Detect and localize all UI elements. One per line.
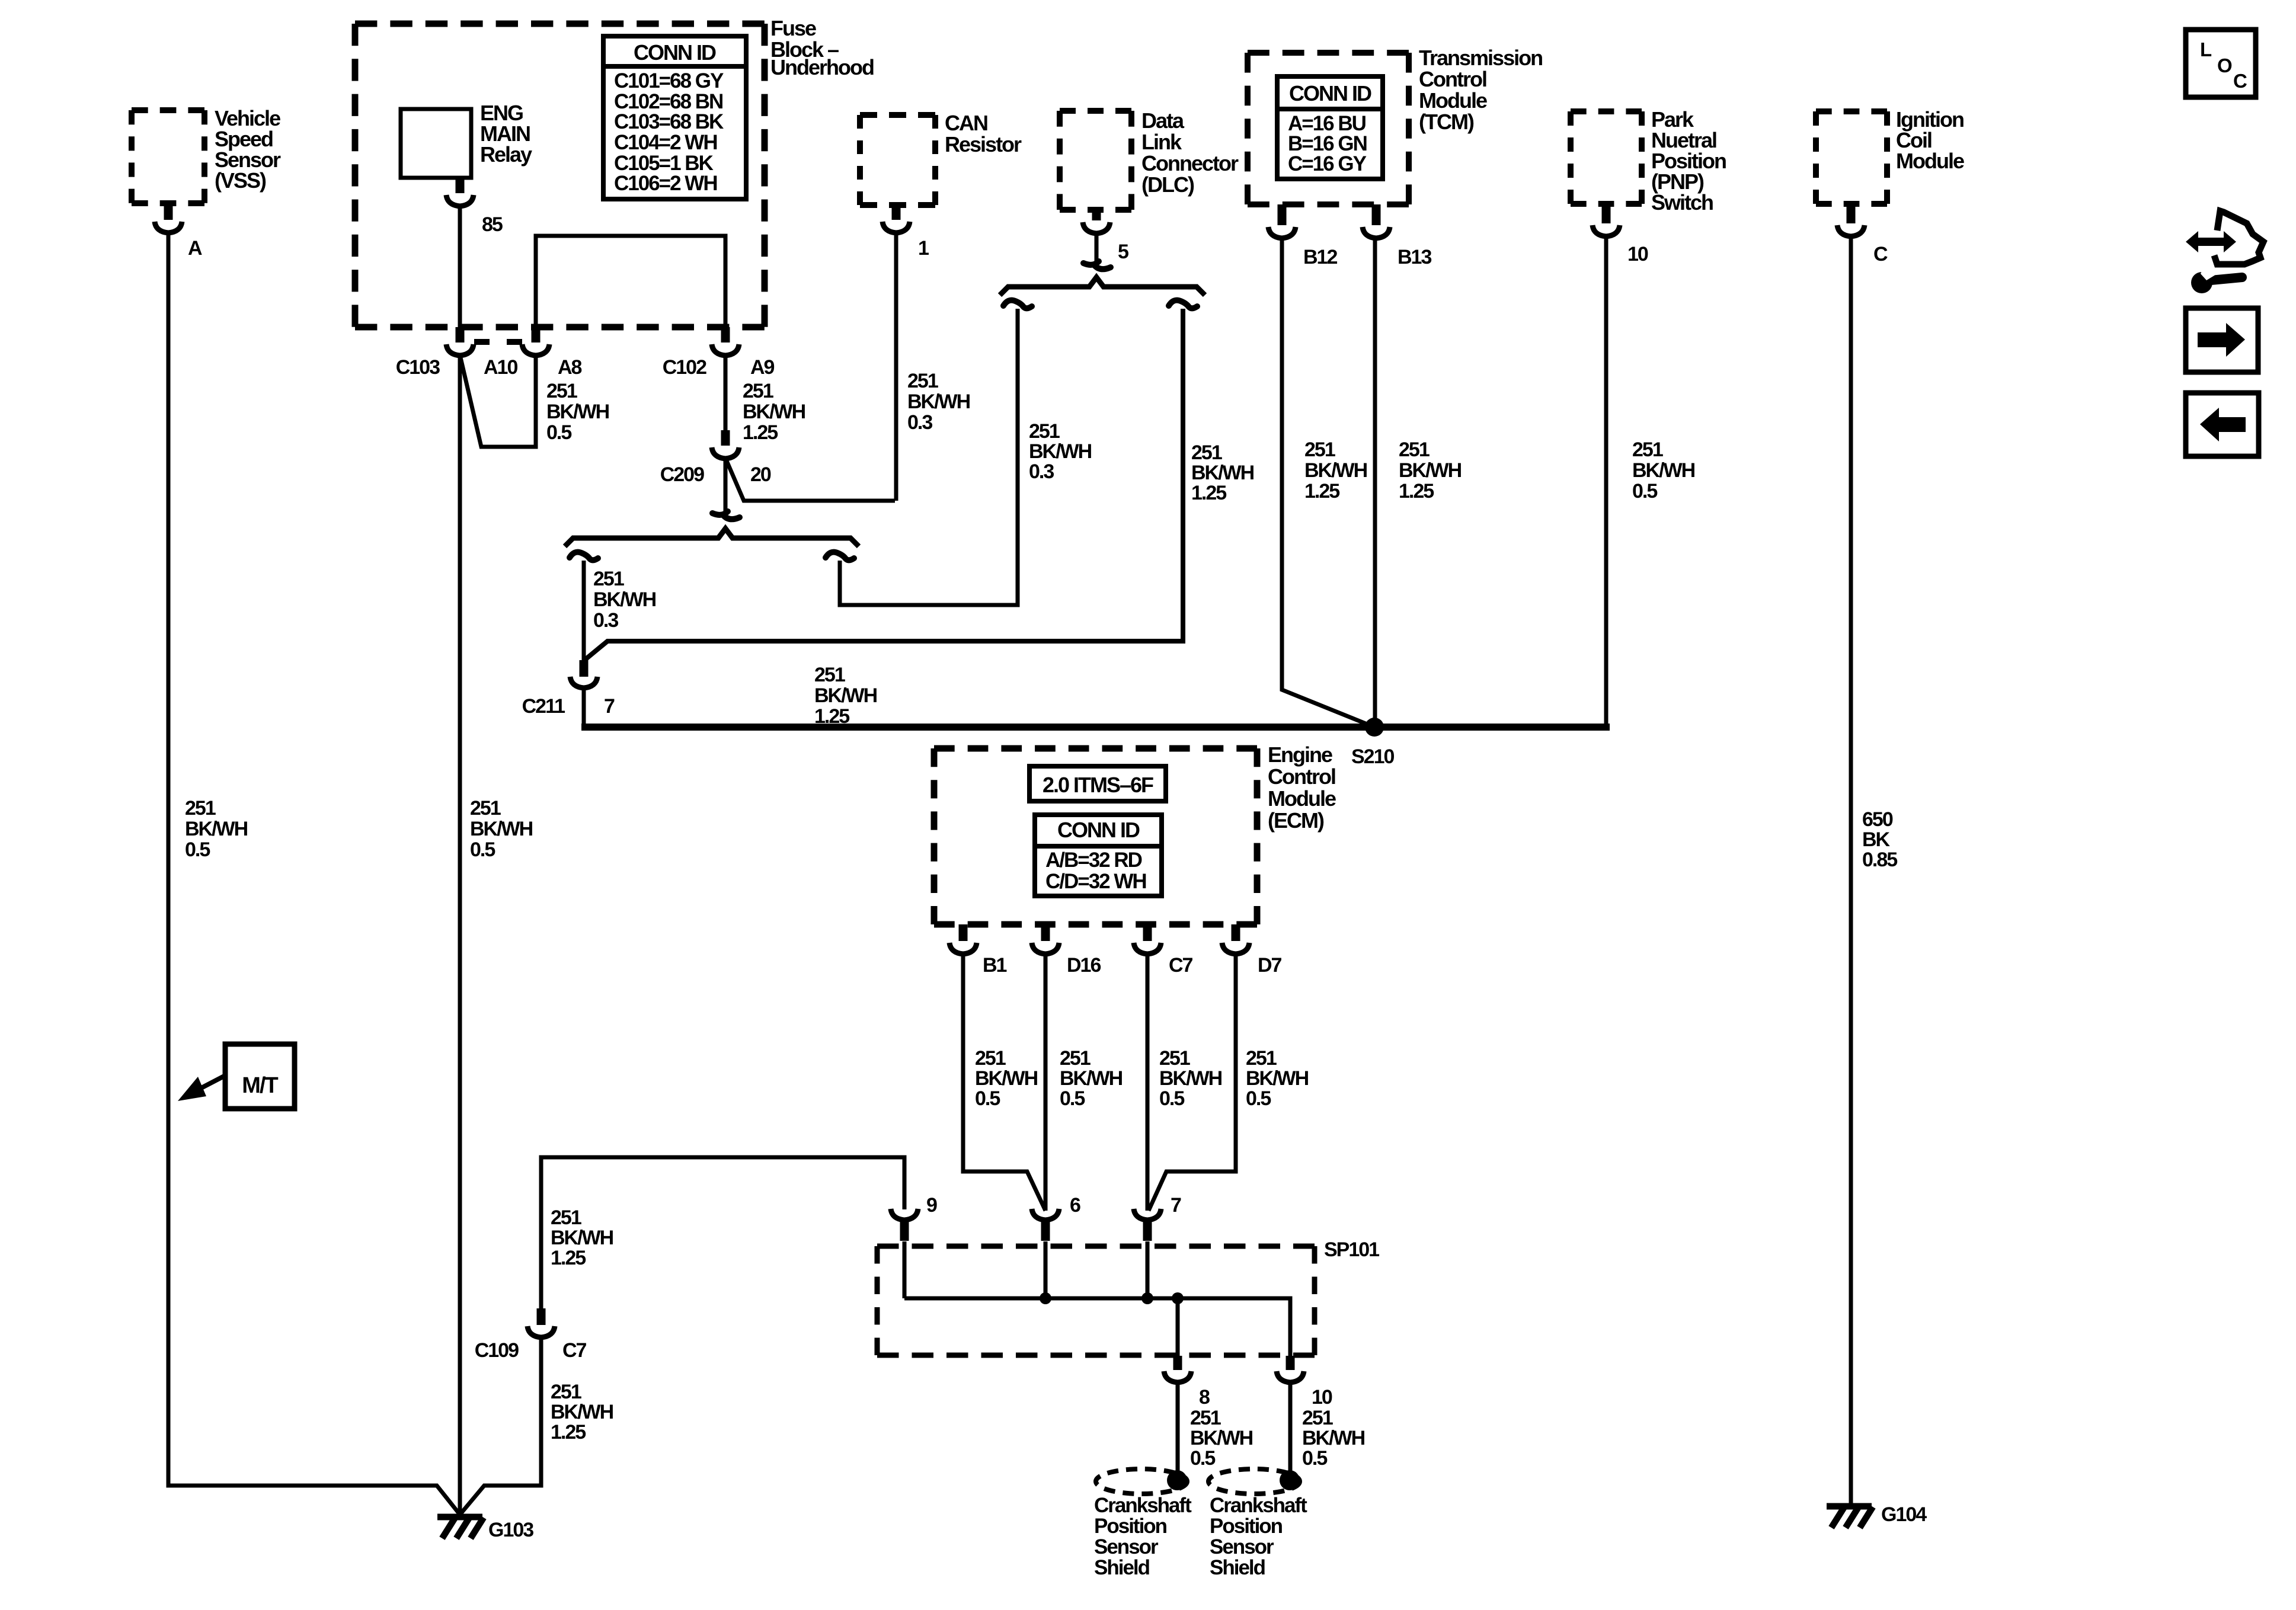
svg-text:5: 5 bbox=[1118, 241, 1128, 263]
wire: 10 to crank shield bbox=[1288, 1382, 1293, 1472]
shield conductor hook left (C209) bbox=[570, 552, 598, 561]
connector 7 (splice input) bbox=[1134, 1209, 1161, 1220]
svg-text:C/D=32 WH: C/D=32 WH bbox=[1045, 870, 1146, 893]
label B1 bbox=[983, 954, 1007, 977]
connector A of VSS bbox=[155, 222, 182, 233]
wire: C103 down to G103 bbox=[458, 355, 462, 1515]
svg-text:BK/WH: BK/WH bbox=[1304, 459, 1367, 482]
svg-text:D16: D16 bbox=[1067, 954, 1101, 977]
svg-text:Switch: Switch bbox=[1651, 190, 1713, 215]
shield conductor hook right (DLC) bbox=[1169, 300, 1197, 309]
svg-text:Sensor: Sensor bbox=[1094, 1535, 1159, 1558]
svg-text:0.5: 0.5 bbox=[185, 838, 210, 861]
svg-text:D7: D7 bbox=[1258, 954, 1282, 977]
svg-text:C103=68 BK: C103=68 BK bbox=[614, 110, 724, 133]
wire label 251 BK/WH 0.5 (C103 wire) bbox=[470, 797, 533, 861]
wire: DLC 5 down bbox=[1095, 233, 1099, 262]
svg-text:251: 251 bbox=[743, 380, 773, 402]
svg-text:Crankshaft: Crankshaft bbox=[1210, 1494, 1307, 1517]
connector D7 bbox=[1222, 943, 1249, 954]
svg-text:BK/WH: BK/WH bbox=[551, 1227, 613, 1249]
label ENG MAIN Relay bbox=[480, 101, 532, 167]
svg-text:0.5: 0.5 bbox=[470, 838, 495, 861]
connector C209 bbox=[712, 447, 739, 459]
pin stub below 6 bbox=[1041, 1221, 1050, 1241]
label 7 (C211) bbox=[604, 695, 615, 718]
svg-text:Module: Module bbox=[1419, 88, 1487, 113]
pin stub A8 bbox=[532, 327, 541, 343]
connector C7 (ECM) bbox=[1134, 943, 1161, 954]
svg-text:0.5: 0.5 bbox=[975, 1087, 1000, 1110]
2.0 ITMS-6F box bbox=[1029, 766, 1166, 801]
wire label 251 BK/WH 0.3 (DLC left conductor) bbox=[1029, 420, 1092, 483]
wire: B13 to S210 bbox=[1373, 238, 1377, 727]
pin stub D16 bbox=[1041, 924, 1050, 941]
label G104 bbox=[1881, 1503, 1927, 1526]
svg-text:1.25: 1.25 bbox=[1304, 480, 1339, 502]
svg-text:251: 251 bbox=[1029, 420, 1060, 443]
label Transmission Control Module (TCM) bbox=[1419, 46, 1542, 134]
svg-text:0.5: 0.5 bbox=[1190, 1447, 1215, 1470]
svg-text:BK/WH: BK/WH bbox=[1190, 1427, 1253, 1449]
connector C211 bbox=[570, 677, 597, 688]
wire: B1 to splice 6 bbox=[963, 954, 1045, 1211]
svg-text:9: 9 bbox=[926, 1194, 937, 1217]
connector C102 bbox=[712, 344, 739, 356]
svg-text:251: 251 bbox=[1246, 1047, 1277, 1070]
shield conductor hook left (DLC) bbox=[1003, 300, 1032, 309]
label B12 bbox=[1303, 246, 1337, 268]
connector 8 bbox=[1164, 1371, 1191, 1382]
svg-text:251: 251 bbox=[1060, 1047, 1091, 1070]
label G103 bbox=[488, 1519, 533, 1541]
pin stub B12 bbox=[1278, 204, 1287, 225]
svg-text:BK/WH: BK/WH bbox=[1029, 440, 1092, 463]
svg-text:251: 251 bbox=[1190, 1407, 1221, 1429]
crank shield ellipse right bbox=[1208, 1469, 1300, 1494]
svg-text:1.25: 1.25 bbox=[1399, 480, 1434, 502]
wire label 251 BK/WH 0.5 (A8 wire) bbox=[546, 380, 609, 444]
svg-text:C: C bbox=[1873, 243, 1888, 265]
svg-text:BK/WH: BK/WH bbox=[470, 818, 533, 840]
label Engine Control Module (ECM) bbox=[1268, 742, 1336, 833]
pin stub 10b bbox=[1286, 1356, 1295, 1370]
svg-text:Position: Position bbox=[1094, 1515, 1167, 1538]
pin stub below 9 bbox=[900, 1221, 909, 1241]
connector 6 bbox=[1032, 1209, 1059, 1220]
label Data Link Connector (DLC) bbox=[1141, 108, 1239, 197]
fuse block dashed box bbox=[355, 24, 765, 327]
svg-text:L: L bbox=[2200, 39, 2212, 60]
ENG MAIN relay box bbox=[401, 109, 471, 178]
svg-text:251: 251 bbox=[814, 664, 845, 686]
svg-text:C211: C211 bbox=[522, 695, 565, 718]
wire: left shield conductor to C211 bbox=[582, 561, 586, 662]
svg-text:CONN ID: CONN ID bbox=[1289, 81, 1371, 105]
svg-text:BK/WH: BK/WH bbox=[551, 1401, 613, 1423]
pin stub IGN-C bbox=[1847, 204, 1856, 223]
shield brace (DLC) bbox=[1000, 277, 1205, 295]
svg-text:8: 8 bbox=[1199, 1386, 1210, 1409]
svg-text:BK/WH: BK/WH bbox=[975, 1067, 1038, 1090]
svg-text:Shield: Shield bbox=[1094, 1556, 1150, 1579]
svg-text:0.5: 0.5 bbox=[1246, 1087, 1271, 1110]
connector 85 bbox=[446, 195, 474, 206]
svg-text:1.25: 1.25 bbox=[551, 1247, 586, 1269]
svg-text:251: 251 bbox=[1191, 441, 1222, 464]
label Park Nuetral Position (PNP) Switch bbox=[1651, 107, 1726, 215]
svg-text:Module: Module bbox=[1268, 786, 1336, 811]
svg-text:Link: Link bbox=[1141, 130, 1182, 154]
next page arrow box bbox=[2186, 308, 2258, 372]
wire: D7 to splice 7 bbox=[1149, 954, 1236, 1211]
wire label 650 BK 0.85 bbox=[1862, 808, 1897, 871]
wire label 251 BK/WH 1.25 (above C109) bbox=[551, 1206, 613, 1269]
wire label 251 BK/WH 0.3 (CAN wire) bbox=[907, 370, 970, 434]
label 5 bbox=[1118, 241, 1128, 263]
label 10 (PNP) bbox=[1627, 243, 1648, 265]
junction dot 6 bbox=[1040, 1292, 1051, 1304]
svg-text:BK/WH: BK/WH bbox=[546, 401, 609, 423]
M/T box bbox=[225, 1044, 295, 1109]
wire label 251 BK/WH 0.5 (D7) bbox=[1246, 1047, 1309, 1110]
svg-text:C7: C7 bbox=[1169, 954, 1193, 977]
svg-text:(TCM): (TCM) bbox=[1419, 110, 1474, 134]
label: Fuse Block - Underhood bbox=[770, 16, 874, 79]
wire label 251 BK/WH 0.5 (VSS wire) bbox=[185, 797, 248, 861]
shield brace (C209) bbox=[565, 529, 859, 546]
svg-text:2.0 ITMS–6F: 2.0 ITMS–6F bbox=[1043, 773, 1153, 797]
svg-text:0.3: 0.3 bbox=[907, 411, 932, 434]
svg-text:BK/WH: BK/WH bbox=[1191, 462, 1254, 484]
wire: right shield conductor to DLC left conductor bbox=[840, 309, 1018, 605]
wire: relay 85 down to C103 bbox=[458, 205, 462, 327]
svg-text:CONN ID: CONN ID bbox=[634, 40, 716, 65]
pin stub B1 bbox=[959, 924, 968, 941]
wire label 251 BK/WH 0.5 (crank 8) bbox=[1190, 1407, 1253, 1470]
crank shield ellipse left bbox=[1096, 1469, 1187, 1494]
component box: Park Nuetral Position (PNP) Switch bbox=[1571, 111, 1642, 204]
jumper wire A10 to A8 bbox=[460, 355, 536, 447]
svg-text:O: O bbox=[2217, 55, 2232, 76]
label A10 bbox=[484, 356, 517, 379]
label C102 bbox=[663, 356, 706, 379]
svg-text:0.5: 0.5 bbox=[1632, 480, 1657, 502]
label 20 bbox=[750, 463, 771, 486]
junction dot 8-branch bbox=[1172, 1292, 1184, 1304]
svg-text:BK/WH: BK/WH bbox=[1246, 1067, 1309, 1090]
connector A8 bbox=[522, 344, 549, 356]
svg-text:Engine: Engine bbox=[1268, 742, 1332, 767]
wire: A8 to A9 inside fuse block bbox=[536, 236, 725, 327]
ground G104 bbox=[1827, 1506, 1873, 1528]
svg-text:C=16 GY: C=16 GY bbox=[1288, 152, 1367, 175]
svg-text:BK/WH: BK/WH bbox=[593, 588, 656, 611]
connector 10 (crank) bbox=[1277, 1371, 1304, 1382]
pin stub DLC-5 bbox=[1092, 210, 1101, 220]
svg-text:85: 85 bbox=[482, 213, 503, 236]
svg-text:A: A bbox=[188, 237, 202, 260]
wire: C211 down to ground bus bbox=[582, 689, 586, 727]
svg-text:SP101: SP101 bbox=[1324, 1238, 1379, 1261]
svg-text:(VSS): (VSS) bbox=[215, 168, 266, 193]
svg-text:A/B=32 RD: A/B=32 RD bbox=[1045, 849, 1142, 872]
svg-text:Sensor: Sensor bbox=[1210, 1535, 1274, 1558]
wire label 251 BK/WH 1.25 (B13) bbox=[1399, 438, 1462, 502]
dashed link C103 to A8 bbox=[474, 339, 522, 345]
wire: C7 to splice 7 bbox=[1146, 954, 1150, 1211]
component box: Vehicle Speed Sensor (VSS) bbox=[132, 110, 204, 203]
CONN ID table (ECM) bbox=[1035, 815, 1162, 896]
svg-text:6: 6 bbox=[1070, 1194, 1080, 1217]
shield twist (C209) bbox=[712, 511, 740, 519]
connector C (ignition coil) bbox=[1837, 225, 1865, 236]
wire: CAN 1 down bbox=[894, 232, 898, 501]
svg-text:BK/WH: BK/WH bbox=[185, 818, 248, 840]
svg-text:251: 251 bbox=[551, 1206, 581, 1229]
CONN ID table (TCM) bbox=[1277, 76, 1383, 179]
label S210 bbox=[1351, 745, 1394, 768]
wire: 7 into SP101 bbox=[1146, 1241, 1150, 1298]
svg-text:(ECM): (ECM) bbox=[1268, 808, 1324, 833]
svg-text:CONN ID: CONN ID bbox=[1057, 818, 1140, 842]
wire: 6 into SP101 bbox=[1044, 1241, 1048, 1298]
label 9 bbox=[926, 1194, 937, 1217]
wire: bus up to PNP 10 bbox=[1604, 236, 1609, 727]
svg-text:0.5: 0.5 bbox=[1060, 1087, 1085, 1110]
connector D16 bbox=[1032, 943, 1059, 954]
wire: ignition coil C to G104 bbox=[1849, 236, 1853, 1505]
LOC legend box bbox=[2186, 30, 2256, 97]
wire label 251 BK/WH 1.25 (B12) bbox=[1304, 438, 1367, 502]
svg-text:7: 7 bbox=[1171, 1194, 1181, 1217]
label C103 bbox=[396, 356, 440, 379]
label A9 bbox=[750, 356, 775, 379]
svg-text:650: 650 bbox=[1862, 808, 1893, 831]
label 85 bbox=[482, 213, 503, 236]
pin stub 8 bbox=[1173, 1356, 1182, 1370]
component box: Ignition Coil Module bbox=[1816, 111, 1887, 204]
crank shield dot right bbox=[1280, 1470, 1300, 1490]
connector 5 bbox=[1083, 222, 1110, 233]
svg-text:Transmission: Transmission bbox=[1419, 46, 1542, 70]
connector 9 bbox=[891, 1209, 918, 1220]
svg-text:B1: B1 bbox=[983, 954, 1007, 977]
wire label 251 BK/WH 0.3 (left conductor) bbox=[593, 568, 656, 632]
connector 1 bbox=[882, 222, 910, 233]
service icon double arrow bbox=[2186, 231, 2236, 252]
pin stub D7 bbox=[1232, 924, 1240, 941]
svg-text:G104: G104 bbox=[1881, 1503, 1927, 1526]
svg-text:BK/WH: BK/WH bbox=[1159, 1067, 1222, 1090]
svg-text:Connector: Connector bbox=[1141, 151, 1239, 175]
svg-text:1.25: 1.25 bbox=[1191, 482, 1226, 504]
svg-text:G103: G103 bbox=[488, 1519, 533, 1541]
svg-text:251: 251 bbox=[470, 797, 501, 820]
svg-text:Relay: Relay bbox=[480, 142, 532, 167]
label Ignition Coil Module bbox=[1896, 107, 1964, 173]
wire: C102 to C209 bbox=[724, 355, 728, 431]
pin stub VSS-A bbox=[164, 203, 173, 220]
pin stub C109 bbox=[537, 1308, 546, 1325]
svg-text:C101=68 GY: C101=68 GY bbox=[614, 69, 724, 92]
svg-text:20: 20 bbox=[750, 463, 771, 486]
svg-text:0.85: 0.85 bbox=[1862, 849, 1897, 871]
svg-text:Data: Data bbox=[1141, 108, 1185, 133]
connector 10 (PNP) bbox=[1593, 225, 1620, 236]
connector C109 bbox=[527, 1326, 555, 1337]
svg-text:0.3: 0.3 bbox=[593, 609, 618, 632]
pin stub C211 bbox=[580, 660, 589, 677]
connector B13 bbox=[1363, 227, 1390, 238]
svg-text:C102: C102 bbox=[663, 356, 706, 379]
label: Vehicle Speed Sensor (VSS) bbox=[215, 106, 281, 193]
label A8 bbox=[558, 356, 582, 379]
svg-text:M/T: M/T bbox=[242, 1073, 278, 1098]
svg-text:S210: S210 bbox=[1351, 745, 1394, 768]
splice pack SP101 dashed box bbox=[877, 1246, 1315, 1355]
svg-text:251: 251 bbox=[185, 797, 216, 820]
label 7 (splice input) bbox=[1171, 1194, 1181, 1217]
pin stub CAN-1 bbox=[892, 205, 901, 220]
crank shield dot left bbox=[1167, 1470, 1187, 1490]
service icon wrench bbox=[2191, 267, 2242, 293]
svg-text:Control: Control bbox=[1268, 764, 1335, 789]
label C109 bbox=[475, 1339, 519, 1362]
svg-text:1.25: 1.25 bbox=[743, 421, 778, 444]
label C211 bbox=[522, 695, 565, 718]
svg-text:Fuse: Fuse bbox=[770, 16, 816, 40]
label D16 bbox=[1067, 954, 1101, 977]
svg-text:251: 251 bbox=[546, 380, 577, 402]
component box: Transmission Control Module (TCM) bbox=[1248, 53, 1409, 204]
wire: VSS pin A to G103 bbox=[168, 232, 460, 1515]
svg-text:A9: A9 bbox=[750, 356, 775, 379]
svg-text:Shield: Shield bbox=[1210, 1556, 1265, 1579]
label B13 bbox=[1398, 246, 1431, 268]
svg-text:BK/WH: BK/WH bbox=[743, 401, 805, 423]
svg-text:10: 10 bbox=[1627, 243, 1648, 265]
SP101 bus wire bbox=[904, 1298, 1290, 1357]
svg-text:Crankshaft: Crankshaft bbox=[1094, 1494, 1192, 1517]
connector B1 bbox=[949, 943, 977, 954]
service icon car outline bbox=[2214, 211, 2263, 264]
label D7 bbox=[1258, 954, 1282, 977]
wire: C109 to G103 bbox=[460, 1337, 541, 1515]
wire: C211 diagonal to DLC right conductor bbox=[584, 309, 1183, 661]
svg-text:BK/WH: BK/WH bbox=[1399, 459, 1462, 482]
label C (ignition coil) bbox=[1873, 243, 1888, 265]
svg-text:BK/WH: BK/WH bbox=[1632, 459, 1695, 482]
svg-text:C: C bbox=[2233, 70, 2247, 92]
svg-text:C106=2 WH: C106=2 WH bbox=[614, 172, 717, 195]
pin stub C102 bbox=[721, 327, 730, 343]
connector C103 bbox=[446, 344, 474, 356]
svg-text:1.25: 1.25 bbox=[551, 1421, 586, 1443]
label Crankshaft Position Sensor Shield (right) bbox=[1210, 1494, 1307, 1579]
svg-text:BK/WH: BK/WH bbox=[814, 684, 877, 707]
svg-text:A8: A8 bbox=[558, 356, 582, 379]
wire label 251 BK/WH 1.25 (below C109) bbox=[551, 1381, 613, 1443]
label CAN Resistor bbox=[945, 111, 1022, 156]
label 8 bbox=[1199, 1386, 1210, 1409]
label C7 (ECM) bbox=[1169, 954, 1193, 977]
svg-text:BK/WH: BK/WH bbox=[1060, 1067, 1123, 1090]
label C209 bbox=[660, 463, 704, 486]
svg-text:251: 251 bbox=[1399, 438, 1430, 461]
svg-text:0.5: 0.5 bbox=[546, 421, 571, 444]
wire label 251 BK/WH 0.5 (C7) bbox=[1159, 1047, 1222, 1110]
svg-text:251: 251 bbox=[1159, 1047, 1190, 1070]
svg-text:251: 251 bbox=[1302, 1407, 1333, 1429]
shield twist (DLC) bbox=[1083, 261, 1111, 269]
wire label 251 BK/WH 0.5 (crank 10) bbox=[1302, 1407, 1365, 1470]
wire: D16 to splice 6 bbox=[1044, 954, 1048, 1211]
connector B12 bbox=[1268, 227, 1296, 238]
svg-text:(DLC): (DLC) bbox=[1141, 172, 1194, 197]
wire: 9 into SP101 bbox=[903, 1241, 907, 1298]
svg-text:C104=2 WH: C104=2 WH bbox=[614, 131, 717, 154]
svg-text:C209: C209 bbox=[660, 463, 704, 486]
svg-text:251: 251 bbox=[1632, 438, 1663, 461]
svg-text:Resistor: Resistor bbox=[945, 132, 1022, 156]
pin stub PNP-10 bbox=[1602, 204, 1611, 223]
wire: B12 to S210 bbox=[1282, 238, 1374, 727]
svg-text:0.5: 0.5 bbox=[1302, 1447, 1327, 1470]
wire label 251 BK/WH 0.5 (PNP wire) bbox=[1632, 438, 1695, 502]
label SP101 bbox=[1324, 1238, 1379, 1261]
svg-text:251: 251 bbox=[593, 568, 624, 590]
pin stub above C209 bbox=[721, 430, 730, 446]
relay pin stub bbox=[456, 178, 465, 193]
previous page arrow box bbox=[2186, 393, 2259, 456]
splice S210 bbox=[1365, 718, 1384, 737]
pin stub C103 bbox=[456, 327, 465, 343]
component box: Engine Control Module (ECM) bbox=[934, 748, 1257, 924]
label 10 (crank) bbox=[1312, 1386, 1332, 1409]
pin stub B13 bbox=[1372, 204, 1381, 225]
component box: CAN Resistor bbox=[860, 115, 935, 205]
svg-text:C109: C109 bbox=[475, 1339, 519, 1362]
svg-text:0.3: 0.3 bbox=[1029, 460, 1054, 483]
svg-text:C7: C7 bbox=[562, 1339, 587, 1362]
wire label 251 BK/WH 1.25 (A9 wire) bbox=[743, 380, 805, 444]
svg-text:Module: Module bbox=[1896, 149, 1964, 173]
svg-text:1: 1 bbox=[918, 237, 929, 260]
wire label 251 BK/WH 1.25 (DLC right conductor) bbox=[1191, 441, 1254, 504]
svg-text:CAN: CAN bbox=[945, 111, 987, 135]
pin stub below 7 bbox=[1143, 1221, 1152, 1241]
svg-text:B13: B13 bbox=[1398, 246, 1431, 268]
wire label 251 BK/WH 0.5 (B1) bbox=[975, 1047, 1038, 1110]
svg-text:251: 251 bbox=[907, 370, 938, 392]
svg-text:251: 251 bbox=[975, 1047, 1006, 1070]
shield conductor hook right (C209) bbox=[826, 552, 854, 561]
wire: C209 to CAN resistor wire bbox=[725, 458, 895, 501]
svg-text:10: 10 bbox=[1312, 1386, 1332, 1409]
label 1 bbox=[918, 237, 929, 260]
label A bbox=[188, 237, 202, 260]
wire label 251 BK/WH 0.5 (D16) bbox=[1060, 1047, 1123, 1110]
svg-text:B12: B12 bbox=[1303, 246, 1337, 268]
wire: connector 9 to C109 bbox=[541, 1157, 904, 1310]
CONN ID table (fuse block) bbox=[603, 36, 746, 199]
wire: C209 down to shield bbox=[724, 458, 728, 512]
arrow to M/T bbox=[178, 1076, 225, 1101]
svg-text:7: 7 bbox=[604, 695, 615, 718]
svg-text:BK: BK bbox=[1862, 828, 1891, 851]
main ground bus wire bbox=[581, 724, 1610, 731]
